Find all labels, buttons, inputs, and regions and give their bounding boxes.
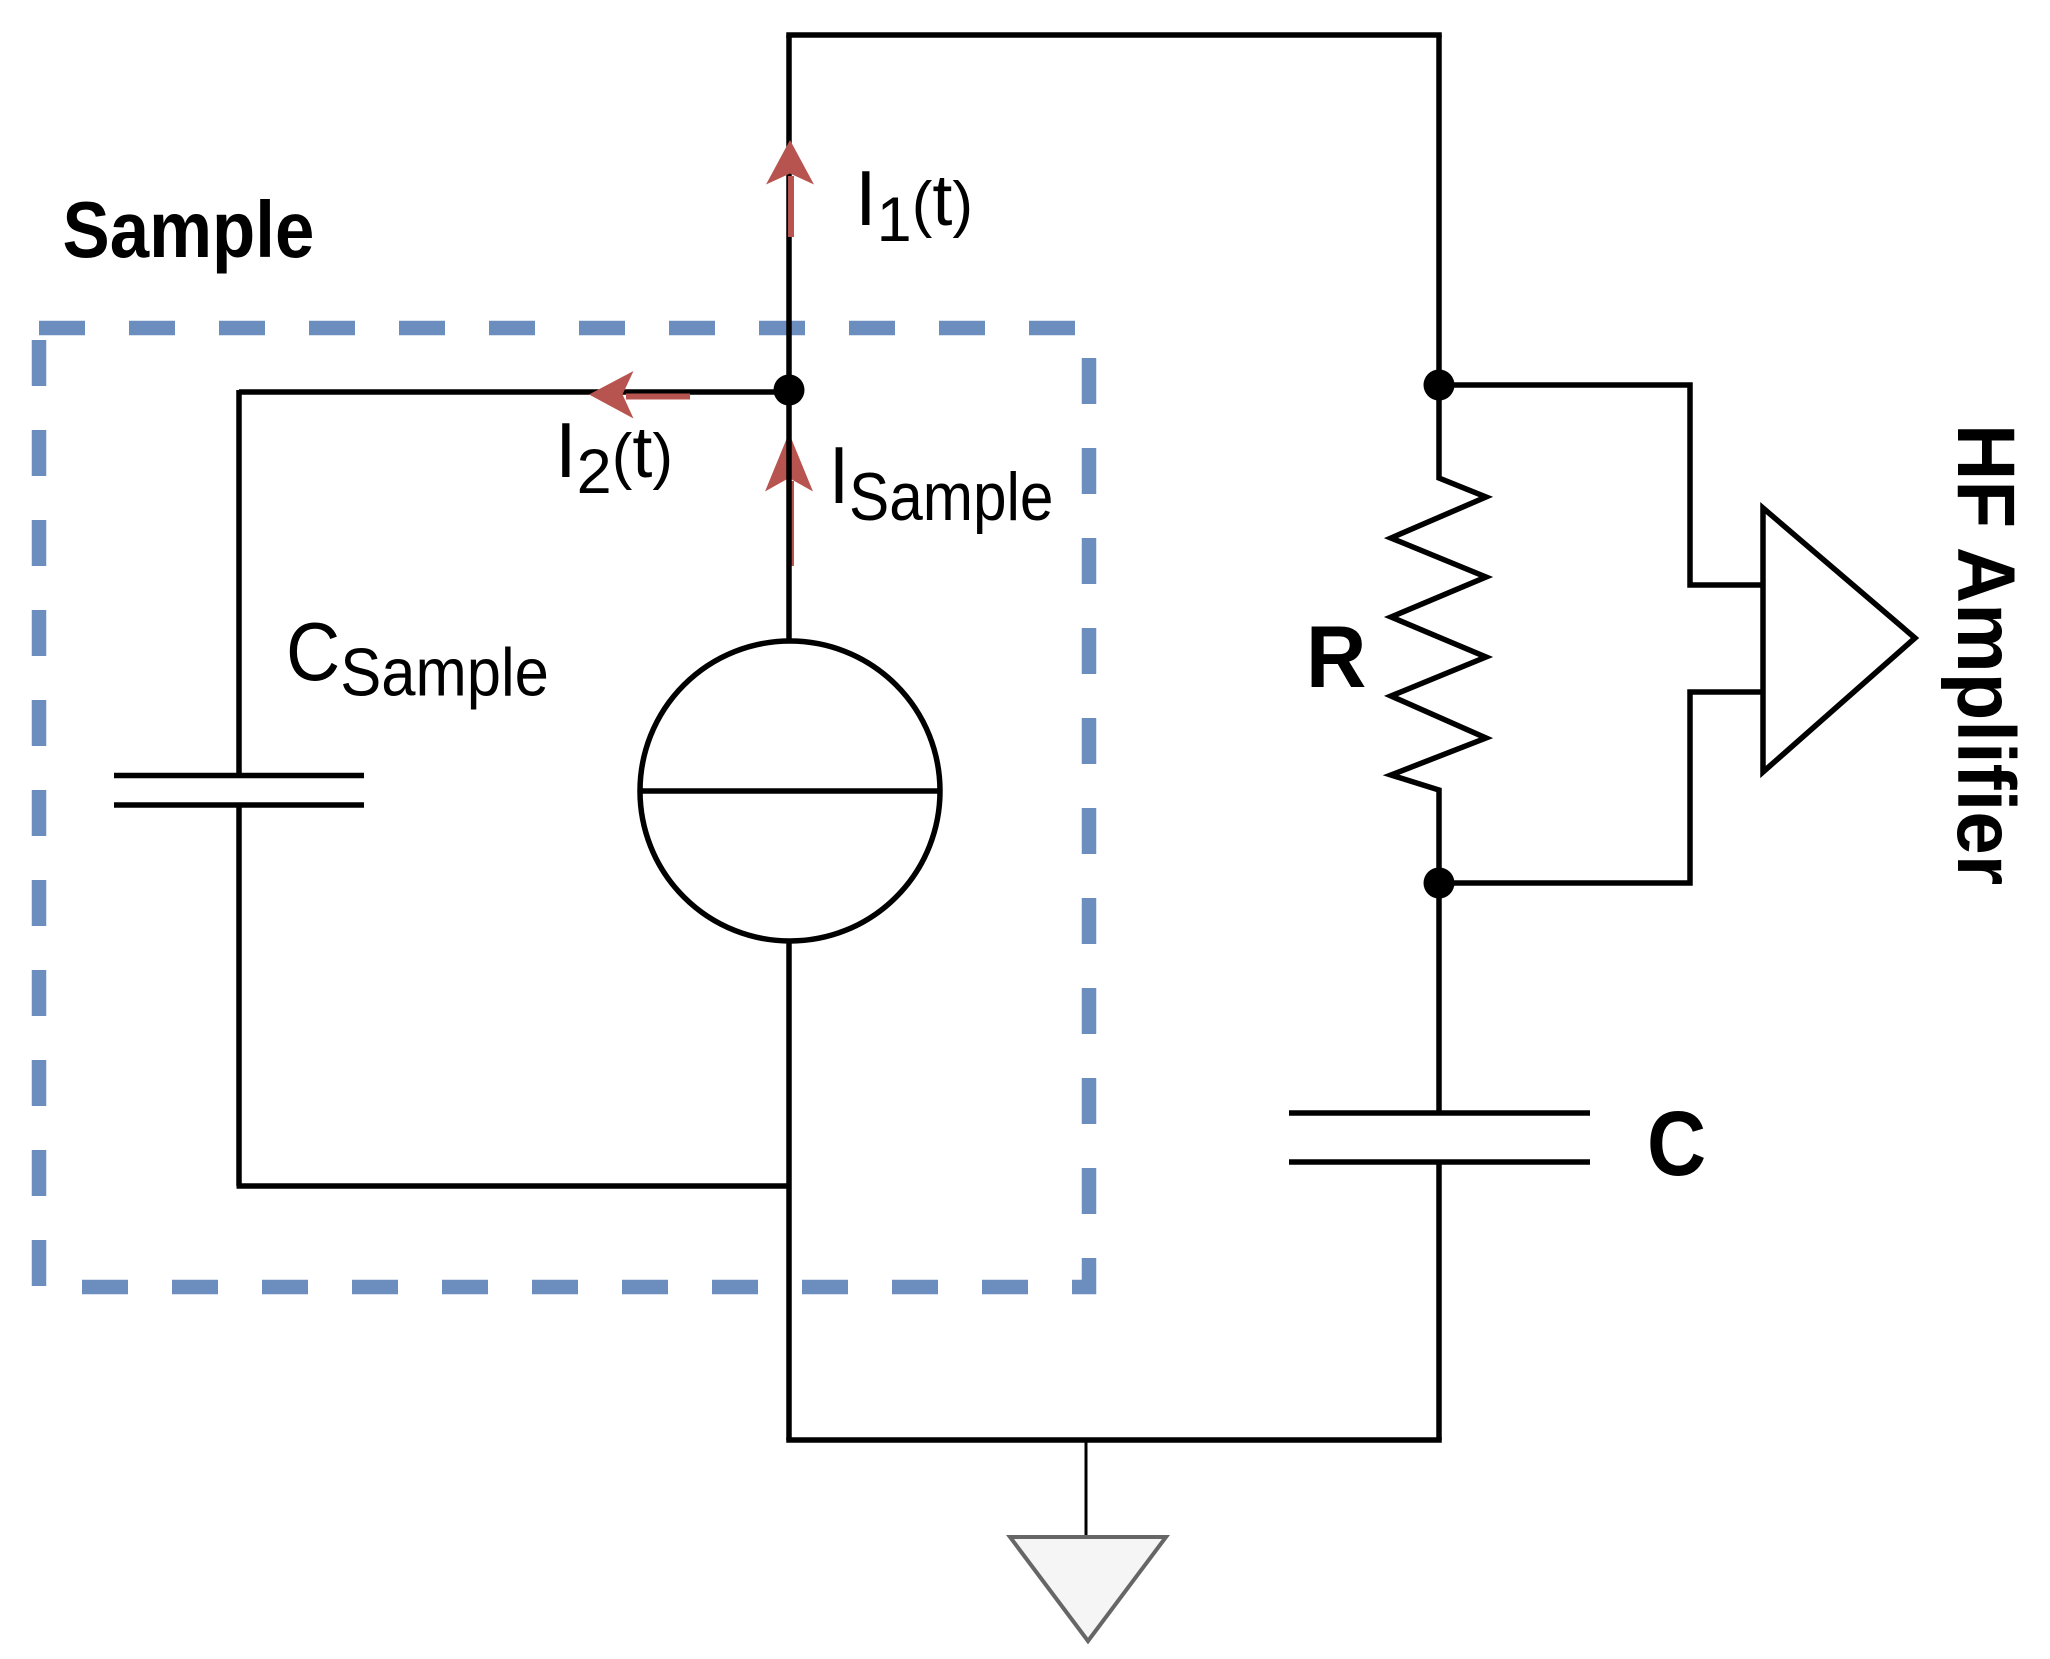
wire current source bottom lead (786, 941, 792, 1440)
node C junction dot (1424, 868, 1455, 899)
wire right vertical (top wire to node B) (1436, 35, 1442, 385)
wire C_Sample bottom lead (236, 805, 242, 1186)
capacitor CSample (114, 776, 364, 806)
wire C_Sample bottom return (237, 1183, 790, 1189)
label HF Amplifier (1941, 424, 2032, 885)
wire left vertical (top wire to node A) (786, 35, 792, 390)
svg-text:HF Amplifier: HF Amplifier (1941, 424, 2032, 885)
arrow I2(t) (589, 371, 690, 419)
svg-text:ISample: ISample (829, 431, 1053, 535)
arrow ISample (765, 433, 813, 566)
wire node C to capacitor C (1436, 883, 1442, 1113)
wire C_Sample top lead (236, 390, 242, 775)
label I2(t) (555, 406, 673, 507)
label Sample (63, 186, 315, 275)
label C (1647, 1093, 1706, 1195)
wire top horizontal (786, 32, 1442, 38)
wire node C to amplifier input (bottom feed) (1439, 692, 1763, 883)
svg-text:C: C (1647, 1093, 1706, 1195)
wire node B to amplifier input (top feed) (1439, 385, 1763, 585)
capacitor C (1289, 1113, 1590, 1162)
svg-text:I1(t): I1(t) (855, 154, 973, 255)
wire node A to current source (786, 390, 792, 644)
svg-text:CSample: CSample (286, 605, 549, 711)
current source ISample (640, 641, 940, 941)
svg-text:R: R (1306, 608, 1366, 706)
wire node A to C_Sample (I2 branch) (239, 389, 789, 395)
op-amp HF Amplifier triangle (1763, 508, 1915, 772)
label CSample (286, 605, 549, 711)
wire capacitor C bottom lead (1436, 1162, 1442, 1440)
label I1(t) (855, 154, 973, 255)
node B junction dot (1424, 370, 1455, 401)
label ISample (829, 431, 1053, 535)
wire bottom horizontal (786, 1437, 1442, 1443)
ground (1010, 1440, 1166, 1641)
dashed sample boundary box (39, 328, 1089, 1287)
label R (1306, 608, 1366, 706)
resistor R (1391, 385, 1486, 883)
node A junction dot (774, 375, 805, 406)
svg-text:Sample: Sample (63, 186, 315, 275)
svg-text:I2(t): I2(t) (555, 406, 673, 507)
arrow I1(t) (766, 140, 814, 237)
